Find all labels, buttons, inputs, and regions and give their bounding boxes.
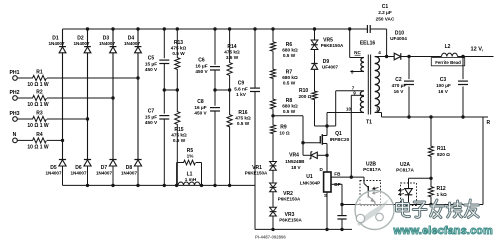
svg-text:P6KE150A: P6KE150A bbox=[279, 218, 302, 223]
svg-text:0.5 W: 0.5 W bbox=[283, 109, 296, 114]
svg-text:680 kΩ: 680 kΩ bbox=[282, 104, 298, 109]
svg-text:1%: 1% bbox=[187, 154, 195, 159]
svg-text:U1: U1 bbox=[306, 174, 313, 180]
svg-text:450 V: 450 V bbox=[195, 69, 208, 74]
svg-text:475 kΩ: 475 kΩ bbox=[171, 133, 187, 138]
svg-text:0.5 W: 0.5 W bbox=[172, 51, 185, 56]
svg-text:10 Ω 1 W: 10 Ω 1 W bbox=[27, 82, 49, 88]
svg-text:1: 1 bbox=[376, 107, 379, 112]
svg-text:PH2: PH2 bbox=[9, 90, 19, 96]
svg-text:PH1: PH1 bbox=[9, 70, 19, 76]
svg-text:1N4007: 1N4007 bbox=[96, 171, 113, 176]
svg-text:5: 5 bbox=[351, 70, 354, 75]
svg-text:PI-4487-092896: PI-4487-092896 bbox=[255, 235, 286, 240]
svg-text:NC: NC bbox=[354, 50, 361, 55]
svg-text:1N4007: 1N4007 bbox=[70, 171, 87, 176]
svg-text:450 V: 450 V bbox=[145, 120, 158, 125]
svg-text:200 Ω: 200 Ω bbox=[299, 94, 312, 99]
svg-text:1N4007: 1N4007 bbox=[48, 41, 65, 46]
svg-text:0.5 W: 0.5 W bbox=[237, 121, 250, 126]
svg-text:15 μF: 15 μF bbox=[145, 61, 157, 66]
svg-text:www.elecfans.com: www.elecfans.com bbox=[393, 225, 493, 237]
svg-text:10 Ω: 10 Ω bbox=[279, 130, 290, 135]
svg-text:PC817A: PC817A bbox=[396, 167, 414, 172]
svg-text:475 kΩ: 475 kΩ bbox=[171, 46, 187, 51]
svg-text:1N5248B: 1N5248B bbox=[285, 159, 305, 164]
svg-text:P6KE150A: P6KE150A bbox=[278, 197, 301, 202]
svg-text:16 V: 16 V bbox=[394, 89, 405, 94]
svg-text:450 V: 450 V bbox=[145, 67, 158, 72]
svg-text:0.5 W: 0.5 W bbox=[283, 53, 296, 58]
svg-text:18 V: 18 V bbox=[291, 165, 301, 170]
svg-text:1N4007: 1N4007 bbox=[73, 41, 90, 46]
svg-text:UF4007: UF4007 bbox=[322, 65, 339, 70]
svg-text:9: 9 bbox=[353, 91, 356, 96]
svg-text:1N4007: 1N4007 bbox=[121, 171, 138, 176]
svg-text:16 V: 16 V bbox=[438, 89, 449, 94]
svg-text:2.2 μF: 2.2 μF bbox=[378, 10, 392, 15]
svg-text:T1: T1 bbox=[366, 120, 372, 126]
svg-text:10: 10 bbox=[346, 107, 352, 112]
svg-text:16 μF: 16 μF bbox=[194, 105, 206, 110]
svg-text:1 kΩ: 1 kΩ bbox=[437, 192, 448, 197]
svg-text:L2: L2 bbox=[445, 44, 451, 50]
svg-text:475 kΩ: 475 kΩ bbox=[224, 50, 240, 55]
svg-text:250 VAC: 250 VAC bbox=[376, 16, 395, 21]
svg-text:UF4004: UF4004 bbox=[390, 36, 407, 41]
svg-text:10 Ω 1 W: 10 Ω 1 W bbox=[27, 102, 49, 108]
svg-text:5.6 nF: 5.6 nF bbox=[234, 86, 248, 91]
svg-text:0.5 W: 0.5 W bbox=[283, 81, 296, 86]
svg-text:LNK304P: LNK304P bbox=[300, 181, 321, 186]
svg-text:4: 4 bbox=[378, 50, 381, 55]
svg-text:VR4: VR4 bbox=[289, 153, 299, 159]
svg-text:820 Ω: 820 Ω bbox=[437, 152, 450, 157]
svg-text:1N4007: 1N4007 bbox=[99, 41, 116, 46]
svg-text:1 mH: 1 mH bbox=[185, 177, 197, 182]
svg-text:R1: R1 bbox=[36, 70, 43, 76]
svg-text:470 μF: 470 μF bbox=[392, 83, 407, 88]
svg-text:IRFBC20: IRFBC20 bbox=[330, 137, 350, 142]
svg-text:P6KE150A: P6KE150A bbox=[321, 43, 344, 48]
svg-text:3.5 W: 3.5 W bbox=[226, 55, 239, 60]
svg-text:R3: R3 bbox=[36, 111, 43, 117]
svg-text:N: N bbox=[13, 132, 17, 138]
svg-text:100 μF: 100 μF bbox=[436, 83, 451, 88]
svg-text:12 V,: 12 V, bbox=[471, 46, 484, 52]
svg-text:475 kΩ: 475 kΩ bbox=[235, 116, 251, 121]
svg-text:R: R bbox=[487, 120, 491, 126]
svg-text:1 kV: 1 kV bbox=[236, 92, 247, 97]
svg-text:1N4007: 1N4007 bbox=[45, 171, 62, 176]
svg-text:10 Ω 1 W: 10 Ω 1 W bbox=[27, 123, 49, 129]
svg-text:PC817A: PC817A bbox=[363, 167, 381, 172]
svg-text:PH3: PH3 bbox=[9, 111, 19, 117]
svg-text:R2: R2 bbox=[36, 90, 43, 96]
svg-text:10 Ω 1 W: 10 Ω 1 W bbox=[27, 145, 49, 151]
svg-text:15 μF: 15 μF bbox=[145, 114, 157, 119]
svg-text:R4: R4 bbox=[36, 132, 43, 138]
svg-text:1N4007: 1N4007 bbox=[124, 41, 141, 46]
svg-text:16 μF: 16 μF bbox=[195, 63, 207, 68]
svg-text:680 kΩ: 680 kΩ bbox=[282, 48, 298, 53]
svg-text:EEL16: EEL16 bbox=[360, 40, 376, 46]
svg-text:450 V: 450 V bbox=[194, 111, 207, 116]
svg-text:FB: FB bbox=[334, 172, 341, 177]
svg-text:680 kΩ: 680 kΩ bbox=[282, 75, 298, 80]
svg-text:Ferrite Bead: Ferrite Bead bbox=[435, 60, 461, 65]
svg-text:0.5 W: 0.5 W bbox=[173, 138, 186, 143]
svg-text:P6KE150A: P6KE150A bbox=[245, 171, 268, 176]
